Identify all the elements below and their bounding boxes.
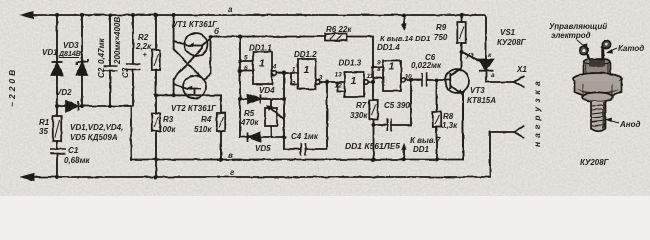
svg-text:R3: R3: [163, 115, 174, 124]
svg-text:VD4: VD4: [259, 86, 275, 95]
svg-text:13: 13: [335, 72, 343, 79]
gate symbols: [259, 58, 395, 88]
capacitor C2: [104, 66, 118, 71]
wire DD1.1 output fork: [277, 73, 299, 84]
svg-text:2: 2: [291, 81, 296, 88]
wire rail b: [210, 37, 373, 101]
svg-text:С3: С3: [121, 67, 130, 78]
svg-text:510к: 510к: [194, 125, 212, 134]
package control electrode lead: [587, 53, 590, 61]
svg-text:уэ: уэ: [465, 52, 474, 59]
svg-text:К выв.7: К выв.7: [410, 136, 441, 145]
svg-text:0,47мк: 0,47мк: [97, 38, 106, 64]
wire cross coupling: [174, 46, 203, 96]
svg-text:Управляющий: Управляющий: [549, 22, 607, 31]
svg-text:1: 1: [351, 75, 357, 87]
svg-text:электрод: электрод: [551, 31, 591, 40]
capacitor C5: [387, 119, 391, 132]
wire R9: [461, 15, 463, 52]
pointer lines: [577, 40, 619, 123]
svg-text:10: 10: [405, 74, 413, 81]
svg-text:R6 22к: R6 22к: [326, 25, 352, 34]
svg-text:3: 3: [319, 75, 323, 82]
svg-text:VT3: VT3: [470, 86, 485, 95]
wire VT collector line: [156, 95, 221, 159]
svg-text:VD1: VD1: [42, 48, 58, 57]
arrow to pin7: [403, 149, 405, 160]
capacitor C1: [50, 149, 66, 154]
resistor R6: [325, 34, 347, 41]
wire C2 branch: [109, 15, 111, 106]
svg-text:в: в: [228, 151, 233, 160]
package flange: [574, 73, 622, 85]
package stud anode: [591, 102, 606, 132]
svg-text:R4: R4: [201, 115, 212, 124]
svg-text:2,2к: 2,2к: [135, 42, 152, 51]
wire VD2 line: [57, 105, 131, 107]
svg-text:С2: С2: [97, 67, 106, 78]
svg-text:11: 11: [367, 73, 374, 80]
svg-text:1: 1: [304, 64, 310, 76]
package collar: [582, 92, 613, 101]
wire DD1.2 output: [320, 82, 345, 92]
thyristor VS1: [479, 60, 493, 71]
svg-text:КУ208Г: КУ208Г: [580, 158, 610, 167]
svg-text:R1: R1: [39, 118, 50, 127]
capacitor C3: [126, 64, 141, 70]
svg-text:35: 35: [39, 127, 48, 136]
wire R7 C5: [374, 81, 412, 160]
svg-text:R9: R9: [436, 23, 447, 32]
svg-text:VD2: VD2: [56, 88, 72, 97]
wire VT1 leads: [174, 37, 211, 81]
arrow to pin14: [403, 15, 405, 25]
diode VD4: [248, 95, 260, 104]
gate DD1.3: [345, 72, 365, 97]
connector X1 bottom: [514, 126, 525, 138]
resistor R1: [53, 116, 61, 141]
wire VD3 branch: [81, 15, 83, 106]
svg-text:Х1: Х1: [516, 65, 527, 74]
wire VD5 line: [240, 136, 284, 138]
svg-text:1,3к: 1,3к: [442, 121, 458, 130]
wire R8: [436, 80, 438, 160]
diode VD5: [248, 133, 260, 142]
svg-text:КУ208Г: КУ208Г: [497, 38, 527, 47]
svg-text:5: 5: [244, 55, 248, 62]
gate DD1.1: [253, 52, 272, 84]
resistor R4: [217, 113, 225, 131]
svg-text:нагрузка: нагрузка: [532, 77, 542, 147]
package hex body: [575, 81, 622, 98]
transistor VT1: [185, 33, 208, 56]
wire DD1.1 inputs vertical: [239, 37, 241, 138]
diode VD1: [52, 63, 63, 75]
package cathode lead: [601, 46, 604, 61]
svg-text:8: 8: [377, 66, 381, 73]
wire DD1.4 inputs: [373, 67, 383, 78]
resistor R7: [369, 100, 377, 119]
svg-text:г: г: [230, 168, 235, 177]
svg-text:а: а: [228, 5, 233, 14]
capacitor C6: [422, 73, 427, 87]
svg-text:VD5 КД509А: VD5 КД509А: [70, 133, 118, 142]
svg-text:R8: R8: [443, 112, 454, 121]
resistor R9: [457, 22, 465, 43]
svg-text:VD1,VD2,VD4,: VD1,VD2,VD4,: [70, 123, 123, 132]
svg-text:1: 1: [292, 67, 296, 74]
resistor R5 variable: [265, 108, 277, 126]
wire rail g bottom: [30, 132, 514, 177]
wire C3 branch: [132, 15, 134, 106]
gate DD1.4: [383, 61, 401, 92]
wire VT3 collector: [451, 52, 462, 76]
svg-text:R5: R5: [244, 109, 255, 118]
wire rail a top: [30, 15, 486, 59]
diode VD2: [66, 101, 78, 111]
svg-text:VD5: VD5: [255, 144, 271, 153]
gate DD1.2: [298, 59, 316, 89]
capacitor C4: [301, 143, 306, 156]
wire VT3 emitter: [451, 86, 464, 160]
svg-text:DD1.2: DD1.2: [294, 50, 317, 59]
svg-text:6: 6: [244, 65, 248, 72]
svg-text:R2: R2: [138, 33, 149, 42]
svg-text:К выв.14 DD1: К выв.14 DD1: [380, 34, 430, 43]
wire thyristor cathode to X1: [486, 71, 514, 83]
svg-text:VT1 КТ361Г: VT1 КТ361Г: [172, 20, 218, 29]
svg-text:0,68мк: 0,68мк: [64, 156, 90, 165]
wire VD1 branch: [56, 15, 58, 177]
svg-text:КТ815А: КТ815А: [467, 96, 496, 105]
svg-text:470к: 470к: [240, 118, 259, 127]
svg-text:VS1: VS1: [500, 28, 516, 37]
svg-text:Анод: Анод: [619, 120, 640, 129]
svg-text:1: 1: [389, 61, 395, 73]
wire C4 link: [284, 82, 327, 149]
svg-text:330к: 330к: [350, 111, 368, 120]
svg-text:Д814В: Д814В: [58, 51, 81, 58]
wire DD1.4 out to C6: [406, 79, 451, 81]
wire DD1.3 out node: [368, 81, 373, 83]
thyristor package drawing: [574, 40, 622, 131]
package cap: [584, 59, 611, 77]
svg-text:1: 1: [259, 58, 265, 70]
svg-text:Катод: Катод: [618, 44, 644, 53]
wire rail v: [131, 93, 463, 160]
transistor VT2: [183, 76, 206, 99]
pin numbers: [244, 55, 412, 90]
resistor R8: [433, 112, 441, 127]
svg-text:DD1.4: DD1.4: [377, 43, 400, 52]
resistor R3: [152, 113, 160, 131]
svg-text:200мк×400В: 200мк×400В: [113, 17, 122, 65]
transistor VT3: [445, 69, 469, 93]
wire VT1 left vertical: [173, 15, 175, 49]
svg-text:4: 4: [272, 64, 277, 71]
svg-text:R7: R7: [356, 101, 367, 110]
resistor R2: [152, 50, 160, 70]
wire feedback vertical: [283, 73, 285, 149]
wire R5 leads: [270, 99, 272, 137]
svg-text:DD1.3: DD1.3: [339, 59, 362, 68]
svg-text:750: 750: [434, 33, 448, 42]
svg-text:0,022мк: 0,022мк: [411, 61, 442, 70]
svg-text:С5 390: С5 390: [384, 101, 410, 110]
svg-text:С4 1мк: С4 1мк: [291, 132, 319, 141]
svg-text:~220В: ~220В: [7, 67, 17, 107]
svg-text:12: 12: [335, 83, 343, 90]
wire VD4 line: [240, 98, 284, 100]
wire gate: [462, 52, 479, 60]
svg-text:VT2 КТ361Г: VT2 КТ361Г: [171, 104, 217, 113]
svg-text:С1: С1: [68, 146, 79, 155]
svg-text:а: а: [491, 72, 495, 79]
svg-text:DD1 К561ЛЕ5: DD1 К561ЛЕ5: [345, 141, 400, 151]
svg-text:DD1: DD1: [413, 145, 430, 154]
svg-text:DD1.1: DD1.1: [249, 44, 272, 53]
svg-text:VD3: VD3: [63, 41, 79, 50]
connector X1 top: [514, 76, 525, 88]
diode VD3 zener: [77, 63, 88, 75]
wire R2-R3 vertical: [155, 15, 157, 177]
svg-text:+: +: [143, 50, 148, 59]
svg-text:100к: 100к: [158, 125, 176, 134]
